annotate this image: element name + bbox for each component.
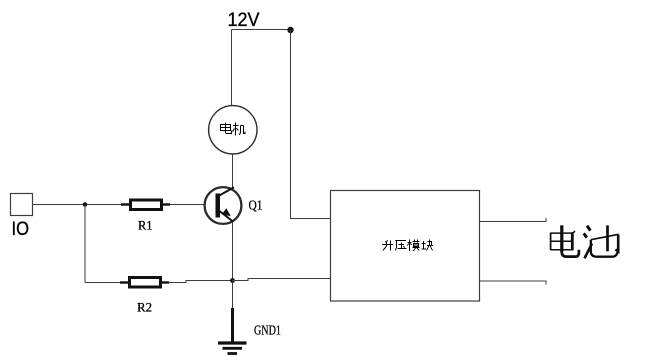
resistor R1 body bbox=[131, 200, 162, 210]
wire base to R1 bbox=[170, 204, 205, 206]
boost module label shengyamokuai (升压模块) bbox=[382, 240, 433, 252]
ground GND1 bar 2 bbox=[223, 347, 243, 350]
池 (large) bbox=[584, 225, 619, 258]
wire motor to transistor collector bbox=[232, 154, 234, 190]
电 bbox=[221, 123, 232, 134]
svg-text:R2: R2 bbox=[137, 300, 152, 315]
机 bbox=[233, 123, 246, 136]
ground GND1 bar 3 bbox=[228, 352, 238, 355]
wire 12V horizontal rail bbox=[232, 29, 291, 31]
transistor Q1 collector stroke bbox=[218, 187, 235, 196]
wire 12V down to motor bbox=[231, 30, 233, 107]
svg-text:Q1: Q1 bbox=[249, 199, 263, 214]
transistor Q1 base bar bbox=[216, 194, 221, 218]
ground GND1 bar 1 bbox=[218, 341, 247, 344]
label battery dianchi (电池) bbox=[551, 225, 619, 258]
svg-text:12V: 12V bbox=[228, 10, 260, 31]
IO port box bbox=[11, 194, 33, 216]
transistor Q1 emitter stroke bbox=[218, 210, 234, 222]
模 bbox=[408, 240, 420, 252]
svg-text:R1: R1 bbox=[138, 218, 153, 233]
wire to R2 left bbox=[85, 282, 121, 284]
压 bbox=[396, 241, 407, 251]
块 bbox=[422, 240, 434, 251]
svg-text:IO: IO bbox=[12, 219, 30, 240]
motor label dianji (电机) bbox=[221, 123, 246, 136]
wire emitter down to node bbox=[232, 222, 234, 281]
transistor Q1 emitter arrow bbox=[222, 208, 231, 216]
resistor R2 lead stubs bbox=[120, 281, 129, 283]
wire boost module output top bbox=[480, 218, 546, 222]
motor M1 circle bbox=[209, 106, 257, 154]
wire boost module output bottom bbox=[480, 281, 546, 285]
boost module box bbox=[331, 191, 480, 302]
wire IO to R1 bbox=[33, 204, 122, 206]
ground GND1 stem bbox=[231, 308, 234, 342]
resistor R1 lead stubs bbox=[121, 203, 130, 205]
wire R2 to emitter node bbox=[169, 281, 232, 283]
svg-text:GND1: GND1 bbox=[254, 324, 281, 339]
transistor Q1 circle bbox=[205, 187, 242, 224]
升 bbox=[382, 241, 393, 251]
wire emitter node down to ground bbox=[232, 281, 234, 310]
junction dot emitter node bbox=[230, 278, 235, 283]
resistor R2 body bbox=[130, 278, 161, 288]
junction dot IO node bbox=[83, 202, 88, 207]
wire 12V rail down to boost module bbox=[291, 30, 331, 219]
wire IO node down to R2 bbox=[84, 205, 86, 283]
wire emitter node to boost module bbox=[233, 279, 331, 281]
junction dot 12V rail bbox=[287, 27, 293, 33]
电 (large) bbox=[551, 225, 579, 256]
